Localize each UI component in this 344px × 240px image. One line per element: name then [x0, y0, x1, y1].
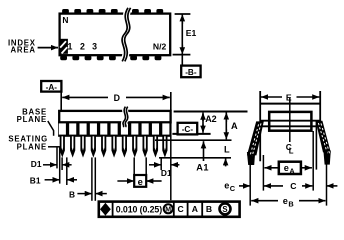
dimension D right arrow	[126, 96, 170, 98]
dimension D1 right arrow pointing right	[149, 164, 161, 166]
dimension D1 left arrow pointing left	[62, 164, 72, 166]
side view lead shoulders band	[58, 122, 171, 137]
dimension E right arrow	[297, 96, 320, 98]
svg-text:A: A	[289, 166, 295, 175]
dimension D1 right arrow pointing left	[171, 164, 180, 166]
svg-text:B: B	[206, 204, 212, 214]
dimension e left arrow	[117, 180, 134, 182]
dimension e right arrow	[146, 180, 161, 182]
position symbol (solid diamond)	[100, 203, 111, 216]
dimension E1 top extension tick	[175, 13, 191, 15]
svg-text:e: e	[284, 163, 289, 173]
svg-text:2: 2	[80, 42, 85, 52]
dimension A1 arrow	[203, 141, 205, 149]
end view body top edge	[260, 103, 320, 105]
dimension C right arrow	[302, 185, 312, 187]
dimension eA right arrow	[301, 167, 312, 169]
dimension D left arrow	[62, 96, 108, 98]
svg-text:A: A	[192, 204, 198, 214]
dimension E1 lower arrow	[181, 45, 183, 55]
leader from E1 to datum B	[181, 55, 183, 66]
dimension B1 arrow pointing right	[45, 179, 60, 181]
frame divider 3	[187, 202, 189, 217]
seating plane line extended right	[155, 139, 232, 141]
dimension A2 lower arrow	[202, 125, 204, 133]
index area hatched square	[59, 39, 68, 54]
dimension B1 arrow pointing left	[67, 179, 77, 181]
svg-text:e: e	[138, 176, 143, 187]
dimension A stem	[225, 114, 227, 137]
end view body step line	[262, 125, 318, 127]
frame divider 2	[173, 202, 175, 217]
dimension D right extension line	[170, 92, 172, 111]
end view right lead (splayed)	[316, 121, 331, 153]
dimension e right extension line	[145, 157, 147, 187]
svg-text:D: D	[114, 93, 120, 103]
dimension D1 left arrow pointing right	[43, 164, 57, 166]
end view left vertical / dimension E extension	[259, 91, 261, 161]
svg-text:-A-: -A-	[46, 83, 58, 92]
base plane line extended right	[174, 111, 248, 113]
svg-text:PLANE: PLANE	[17, 115, 47, 124]
top view break line (wavy)	[123, 8, 129, 62]
svg-text:E: E	[286, 92, 292, 102]
side view lead tips	[60, 136, 65, 157]
frame divider 4	[201, 202, 203, 217]
svg-text:A1: A1	[196, 163, 209, 173]
dimension D1 left inner extension line	[61, 157, 63, 170]
svg-text:3: 3	[92, 42, 97, 52]
svg-text:0.010 (0.25): 0.010 (0.25)	[116, 204, 162, 214]
svg-text:A: A	[231, 121, 238, 131]
dimension B right arrow	[95, 193, 107, 195]
end view right lead inner edge line	[315, 121, 317, 170]
frame divider 1	[112, 202, 114, 217]
svg-text:e: e	[224, 181, 229, 191]
dimension E1 upper arrow	[181, 14, 183, 24]
dimension A lower arrow	[225, 129, 227, 139]
svg-text:B1: B1	[30, 175, 41, 185]
dimension A2 upper arrow	[202, 113, 204, 121]
dimension B left extension line	[91, 157, 93, 200]
end view vertical centerline	[289, 98, 291, 142]
dimension eB left arrow	[251, 200, 278, 202]
svg-text:e: e	[283, 196, 288, 206]
end view right vertical / dimension E extension	[319, 91, 321, 123]
end view left lead (splayed)	[247, 121, 264, 155]
svg-text:1: 1	[68, 42, 73, 52]
dimension e left extension line	[133, 157, 135, 187]
modifier circle S (RFS)	[220, 203, 231, 214]
dimension eA box	[279, 162, 301, 174]
end view body parting line	[260, 120, 320, 122]
lead tip line extended right	[159, 157, 231, 159]
dimension E left arrow	[261, 96, 282, 98]
dimension D left extension line	[60, 92, 62, 111]
datum box -C-	[178, 123, 198, 135]
dimension L lower arrow (outside)	[225, 158, 227, 166]
svg-text:L: L	[289, 147, 294, 156]
dimension B left arrow	[77, 193, 92, 195]
dimension eC right arrow (outside)	[327, 185, 338, 187]
dimension D1 right inner extension	[160, 158, 162, 170]
dimension E1 stem	[181, 20, 183, 48]
dimension eB/eC right extension line	[326, 150, 328, 206]
body end extension line down to tolerance frame	[170, 122, 172, 200]
svg-text:D1: D1	[31, 159, 42, 169]
end view molded cap rectangle	[269, 112, 311, 131]
feature control frame box	[99, 202, 240, 217]
datum box -A-	[41, 81, 61, 92]
svg-text:PLANE: PLANE	[17, 143, 47, 152]
svg-text:C: C	[230, 184, 236, 193]
svg-text:B: B	[288, 200, 293, 209]
svg-text:N/2: N/2	[153, 41, 167, 51]
dimension eA left arrow	[264, 167, 278, 169]
dimension eB right arrow	[299, 200, 326, 202]
dimension C/eA right extension line	[312, 131, 314, 191]
svg-text:S: S	[222, 205, 227, 214]
dimension D1 left outer extension line	[56, 147, 58, 168]
base plane leader line	[48, 121, 54, 136]
seating plane leader line	[48, 146, 60, 148]
svg-text:A2: A2	[205, 114, 217, 124]
svg-text:E1: E1	[186, 28, 197, 38]
dimension e box	[134, 175, 146, 187]
svg-text:AREA: AREA	[11, 45, 36, 54]
dimension A upper arrow	[225, 112, 227, 122]
dimension eB/eC left extension line	[249, 157, 251, 206]
dimension C/eA left extension line	[262, 155, 264, 191]
top view package body	[60, 14, 171, 56]
svg-text:C: C	[290, 181, 296, 191]
top view pin bumps (upper row)	[62, 9, 69, 14]
svg-text:D1: D1	[161, 168, 172, 178]
svg-text:-B-: -B-	[185, 68, 197, 77]
svg-text:N: N	[62, 15, 68, 25]
datum box -B-	[181, 66, 200, 78]
datum C seating line (short)	[172, 133, 210, 135]
svg-text:M: M	[165, 207, 171, 214]
side view break line (wavy)	[124, 107, 127, 127]
dimension C left arrow	[264, 185, 283, 187]
modifier circle M (MMC)	[164, 204, 173, 213]
dimension E1 bottom extension tick	[173, 54, 191, 56]
dimension eC left arrow (outside)	[239, 185, 250, 187]
top view pin bumps (lower row)	[60, 56, 67, 61]
side view package body	[59, 111, 170, 122]
svg-text:C: C	[177, 204, 183, 214]
dimension A2 stem	[202, 114, 204, 131]
dimension A1 stem	[203, 147, 205, 161]
dimension B1 outer extension line	[59, 147, 61, 184]
svg-text:L: L	[224, 145, 230, 155]
dimension B1 inner extension line	[66, 157, 68, 185]
svg-text:B: B	[69, 189, 75, 199]
dimension B right extension line	[94, 157, 96, 200]
svg-text:-C-: -C-	[182, 125, 194, 134]
index area pointer arrow	[38, 47, 58, 49]
